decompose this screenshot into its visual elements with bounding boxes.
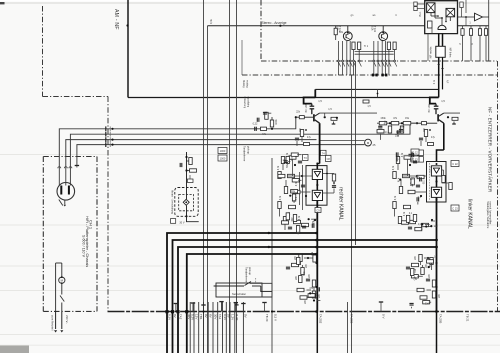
svg-text:TA 205: TA 205 xyxy=(439,314,443,324)
svg-text:Entzerrung: Entzerrung xyxy=(243,97,246,109)
svg-text:T 101: T 101 xyxy=(373,26,376,33)
svg-text:0,3V: 0,3V xyxy=(223,314,227,320)
svg-text:NF rechts: NF rechts xyxy=(429,46,433,58)
svg-text:equalizing: equalizing xyxy=(247,97,250,108)
svg-text:1000: 1000 xyxy=(220,149,226,153)
svg-text:pick-up: pick-up xyxy=(247,146,250,155)
svg-text:6V: 6V xyxy=(209,314,213,318)
svg-text:Tonabnehmer: Tonabnehmer xyxy=(243,146,246,161)
svg-text:1,5: 1,5 xyxy=(318,99,322,103)
svg-text:10µ: 10µ xyxy=(290,157,292,162)
svg-text:TA2: TA2 xyxy=(178,314,182,320)
svg-text:BC 149: BC 149 xyxy=(305,104,308,113)
svg-text:TB 20: TB 20 xyxy=(265,314,269,322)
svg-text:TB 21: TB 21 xyxy=(466,314,470,322)
svg-text:Tonabnehmer: Tonabnehmer xyxy=(245,267,248,282)
svg-text:zum Netzteil: zum Netzteil xyxy=(51,315,55,331)
svg-text:100k: 100k xyxy=(275,119,278,125)
svg-text:6V: 6V xyxy=(173,314,177,318)
svg-text:47µ: 47µ xyxy=(307,137,312,139)
svg-text:9,1k: 9,1k xyxy=(209,18,213,24)
svg-text:1,2V: 1,2V xyxy=(230,314,234,320)
svg-text:U 30: U 30 xyxy=(235,314,239,321)
svg-text:normal / preamplifier: normal / preamplifier xyxy=(489,202,492,225)
svg-text:S 600 / 110 V: S 600 / 110 V xyxy=(81,235,85,258)
svg-text:1,5: 1,5 xyxy=(441,99,445,103)
svg-text:230 V~: 230 V~ xyxy=(65,315,69,324)
svg-text:0,3 V: 0,3 V xyxy=(274,314,278,321)
svg-text:10µ: 10µ xyxy=(395,135,400,137)
svg-text:Bu 1: Bu 1 xyxy=(420,11,422,16)
svg-text:C 22: C 22 xyxy=(452,162,458,166)
svg-text:0,3V: 0,3V xyxy=(191,314,195,320)
svg-text:0,3V: 0,3V xyxy=(167,314,171,320)
svg-text:NF: NF xyxy=(446,80,449,84)
svg-text:BC 149: BC 149 xyxy=(428,104,431,113)
svg-text:5V: 5V xyxy=(227,314,231,318)
svg-text:0V: 0V xyxy=(244,314,248,318)
svg-text:linker KANAL: linker KANAL xyxy=(467,199,473,229)
svg-text:Abtast - Umschaltung: Abtast - Umschaltung xyxy=(171,190,174,215)
svg-text:0 V: 0 V xyxy=(382,314,386,319)
svg-text:0,22: 0,22 xyxy=(253,123,258,126)
svg-text:Muting: Muting xyxy=(242,80,245,88)
svg-text:1000: 1000 xyxy=(220,157,226,161)
svg-text:TA 202: TA 202 xyxy=(319,314,323,324)
svg-text:Tr 2: Tr 2 xyxy=(432,80,435,85)
svg-text:TA1: TA1 xyxy=(218,314,222,320)
svg-text:Wiedergabe / Aufnahme: Wiedergabe / Aufnahme xyxy=(486,202,489,229)
svg-text:pick-up: pick-up xyxy=(248,267,251,276)
svg-text:rechter KANAL: rechter KANAL xyxy=(337,187,343,221)
svg-text:10µ: 10µ xyxy=(383,120,385,125)
svg-text:IC 120: IC 120 xyxy=(428,166,430,173)
svg-text:TB1: TB1 xyxy=(199,314,203,320)
svg-text:10µ: 10µ xyxy=(291,191,296,193)
svg-text:0V: 0V xyxy=(204,314,208,318)
svg-text:NF links: NF links xyxy=(449,48,453,58)
svg-text:47µ: 47µ xyxy=(431,137,436,139)
svg-text:12V: 12V xyxy=(194,314,198,319)
svg-text:30V: 30V xyxy=(187,314,191,319)
svg-text:TA 203: TA 203 xyxy=(350,314,354,324)
svg-text:AM - NF: AM - NF xyxy=(113,9,119,30)
svg-text:C 23: C 23 xyxy=(452,207,458,211)
svg-text:Stereo - Anzeige: Stereo - Anzeige xyxy=(261,21,286,25)
svg-text:30 V: 30 V xyxy=(179,222,184,225)
svg-text:NF - ENTZERRER - VORVERSTÄRKER: NF - ENTZERRER - VORVERSTÄRKER xyxy=(487,107,493,193)
svg-text:muting: muting xyxy=(246,80,249,88)
svg-text:1,5: 1,5 xyxy=(328,108,332,111)
svg-text:30V: 30V xyxy=(213,314,217,319)
svg-text:Netzschalter: Netzschalter xyxy=(232,293,246,296)
svg-text:Tr 1: Tr 1 xyxy=(364,45,369,48)
